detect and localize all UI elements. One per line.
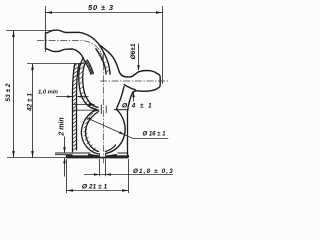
hole right wall bbox=[105, 153, 107, 157]
svg-text:Ø1,8 ± 0,3: Ø1,8 ± 0,3 bbox=[133, 168, 174, 175]
dim 42±1 bbox=[27, 64, 84, 158]
dim 50±3 bbox=[46, 6, 163, 84]
waist callout arrows left bbox=[73, 103, 107, 114]
base right foot bbox=[128, 155, 129, 157]
dim 53±2 bbox=[6, 31, 67, 158]
svg-text:50 ± 3: 50 ± 3 bbox=[88, 3, 114, 12]
nozzle bottom edge with barb bbox=[133, 88, 158, 92]
lower bulb left wall outer (section) bbox=[81, 109, 98, 154]
base bottom thick line bbox=[66, 157, 128, 159]
tube wall descending into bulb (right inner) bbox=[96, 49, 106, 74]
svg-text:Ø 4 ± 1: Ø 4 ± 1 bbox=[122, 103, 153, 110]
lower bulb left wall inner (section) bbox=[86, 112, 99, 152]
base dark fill bbox=[66, 155, 99, 157]
nozzle bottom corner descending to wall bbox=[128, 92, 133, 110]
svg-text:53 ± 2: 53 ± 2 bbox=[5, 83, 12, 101]
right cylinder wall bbox=[127, 110, 129, 158]
web line right waist bbox=[114, 109, 128, 111]
wire tube outline bbox=[46, 30, 111, 74]
centerline body axis bbox=[103, 52, 105, 163]
dim Ø1,8±0,3 hole bbox=[84, 159, 173, 176]
centerline nozzle axis bbox=[100, 80, 169, 82]
centerline tube axis bbox=[37, 41, 169, 164]
wall hatching lower bulb left bbox=[83, 109, 96, 151]
svg-text:1,0 min: 1,0 min bbox=[38, 90, 58, 96]
lower bulb inner arc right bottom bbox=[105, 145, 115, 152]
base slab bbox=[55, 153, 129, 158]
tube bottom edge with barb bbox=[46, 49, 85, 62]
nozzle top edge with barb bbox=[124, 71, 160, 110]
left cylinder wall inner bbox=[77, 63, 80, 150]
svg-text:Ø6±1: Ø6±1 bbox=[130, 43, 137, 59]
wall hatching upper bulb left bbox=[79, 53, 109, 151]
tube top edge with barb bbox=[46, 30, 100, 45]
hole left wall bbox=[99, 153, 101, 157]
dim Ø21±1 base bbox=[67, 159, 129, 193]
svg-text:42 ± 1: 42 ± 1 bbox=[26, 93, 33, 112]
upper bulb left wall inner (section) bbox=[83, 62, 98, 107]
tube wall left band mid bbox=[86, 61, 92, 74]
svg-text:Ø 16 ± 1: Ø 16 ± 1 bbox=[143, 131, 167, 137]
svg-text:Ø 21 ± 1: Ø 21 ± 1 bbox=[82, 184, 108, 191]
tube wall descending into bulb (left outer) bbox=[85, 61, 91, 74]
nozzle to bulb lower junction bbox=[124, 85, 135, 90]
base left foot bbox=[66, 155, 72, 157]
tube end face bbox=[45, 33, 47, 49]
hatching tube descend walls bbox=[86, 53, 109, 75]
upper bulb left wall outer (section) bbox=[79, 59, 116, 154]
neck channel left wall bbox=[100, 105, 102, 115]
left cylinder wall outer bbox=[73, 63, 80, 152]
lower bulb right arc bbox=[106, 110, 125, 154]
neck channel right wall bbox=[105, 106, 107, 114]
wall hatching left cylinder bbox=[73, 63, 78, 150]
base wedge near hole bbox=[88, 154, 99, 157]
tube wall descending into bulb (right outer) bbox=[99, 45, 110, 74]
svg-text:2 min: 2 min bbox=[59, 117, 66, 136]
upper bulb right arc below nozzle to waist bbox=[117, 87, 125, 110]
nozzle tip face bbox=[158, 74, 160, 88]
tube wall descending into bulb (left inner) bbox=[87, 60, 93, 74]
dim Ø16±1 lower bulb bbox=[86, 118, 168, 139]
upper bulb outer right arc bbox=[99, 45, 130, 154]
